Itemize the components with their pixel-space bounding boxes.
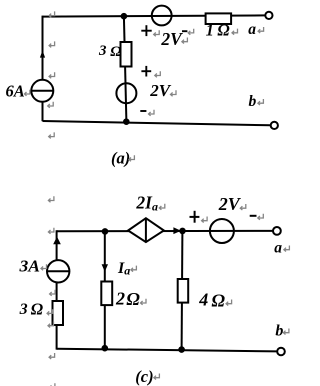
svg-text:4: 4 [198,290,208,310]
svg-text:Ω: Ω [126,289,140,309]
svg-text:3A: 3A [18,256,40,275]
svg-text:Ω: Ω [31,300,44,319]
svg-text:a: a [274,240,282,257]
svg-text:1: 1 [206,21,214,40]
svg-text:(a): (a) [111,148,130,167]
svg-text:3: 3 [98,43,107,59]
svg-text:b: b [249,93,257,110]
svg-text:b: b [275,323,283,340]
svg-text:3: 3 [19,301,28,318]
svg-text:a: a [248,21,256,38]
svg-text:6A: 6A [6,82,25,101]
svg-text:(c): (c) [135,367,153,386]
svg-text:2V: 2V [160,29,183,49]
svg-text:Ω: Ω [217,21,230,40]
svg-text:Ω: Ω [110,44,121,60]
svg-text:Ω: Ω [212,290,226,310]
svg-text:2V: 2V [149,81,172,100]
svg-text:2: 2 [115,289,125,309]
svg-text:2V: 2V [218,194,242,214]
